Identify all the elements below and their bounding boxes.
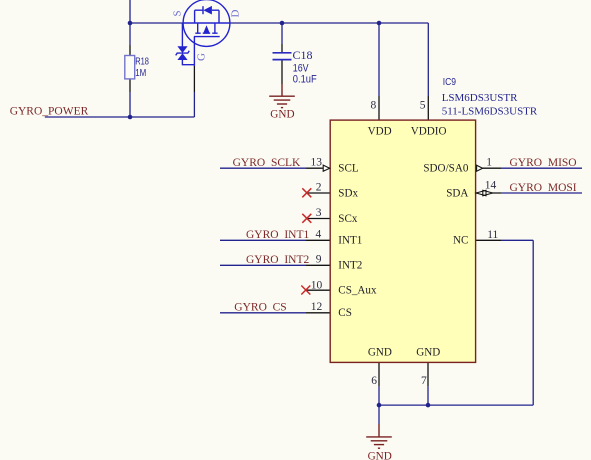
svg-text:G: G (196, 53, 208, 61)
svg-text:GYRO_CS: GYRO_CS (234, 302, 286, 314)
svg-text:511-LSM6DS3USTR: 511-LSM6DS3USTR (442, 106, 538, 118)
svg-text:CS_Aux: CS_Aux (338, 285, 377, 297)
svg-text:SCx: SCx (338, 213, 358, 225)
svg-text:VDDIO: VDDIO (411, 125, 447, 137)
svg-text:2: 2 (316, 181, 322, 193)
svg-text:1M: 1M (135, 68, 146, 79)
svg-text:3: 3 (316, 207, 322, 219)
svg-text:INT1: INT1 (338, 235, 362, 247)
svg-text:4: 4 (316, 229, 322, 241)
svg-text:C18: C18 (293, 48, 313, 62)
svg-text:GYRO_MISO: GYRO_MISO (510, 157, 577, 169)
svg-text:12: 12 (311, 301, 323, 313)
svg-text:VDD: VDD (368, 125, 392, 137)
svg-text:GND: GND (416, 347, 440, 359)
svg-text:GND: GND (368, 347, 392, 359)
svg-text:S: S (172, 10, 184, 16)
svg-text:R18: R18 (135, 57, 149, 68)
svg-text:LSM6DS3USTR: LSM6DS3USTR (442, 92, 518, 104)
svg-text:8: 8 (370, 100, 376, 112)
svg-text:GND: GND (368, 450, 392, 460)
svg-text:GND: GND (270, 109, 294, 121)
svg-text:SDx: SDx (338, 187, 358, 199)
svg-text:CS: CS (338, 307, 352, 319)
svg-text:GYRO_MOSI: GYRO_MOSI (510, 182, 577, 194)
svg-text:14: 14 (485, 180, 497, 192)
svg-text:6: 6 (371, 375, 377, 387)
svg-text:16V: 16V (293, 62, 309, 74)
svg-text:13: 13 (311, 156, 323, 168)
svg-text:0.1uF: 0.1uF (293, 74, 317, 86)
svg-text:NC: NC (453, 235, 468, 247)
svg-text:GYRO_INT1: GYRO_INT1 (246, 229, 310, 241)
svg-text:GYRO_INT2: GYRO_INT2 (246, 254, 310, 266)
svg-text:SCL: SCL (338, 163, 359, 175)
svg-text:1: 1 (486, 156, 492, 168)
svg-text:10: 10 (311, 279, 323, 291)
svg-text:7: 7 (421, 375, 427, 387)
svg-text:11: 11 (487, 229, 498, 241)
svg-text:INT2: INT2 (338, 260, 362, 272)
svg-text:SDA: SDA (446, 187, 468, 199)
svg-text:SDO/SA0: SDO/SA0 (423, 163, 468, 175)
svg-text:5: 5 (420, 100, 426, 112)
svg-text:GYRO_POWER: GYRO_POWER (10, 106, 89, 118)
svg-text:9: 9 (316, 254, 322, 266)
svg-text:IC9: IC9 (443, 77, 456, 88)
svg-text:GYRO_SCLK: GYRO_SCLK (233, 157, 301, 169)
svg-text:D: D (230, 10, 242, 18)
